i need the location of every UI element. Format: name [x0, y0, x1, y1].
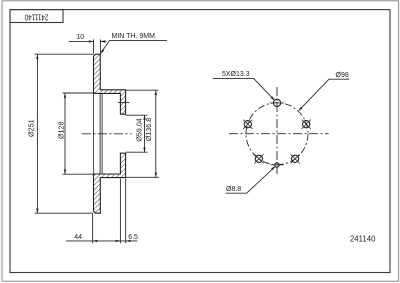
svg-text:5XØ13.3: 5XØ13.3 [222, 71, 250, 78]
leader 5XD13.3 [213, 78, 274, 100]
dimension D251 [35, 54, 94, 213]
svg-text:Ø98: Ø98 [336, 72, 349, 79]
dimension D59.04 [126, 115, 148, 152]
dimension D128 [63, 93, 96, 174]
bolt circle D98 [246, 103, 308, 165]
horizontal centerline [229, 133, 329, 135]
small hole D8.8 [275, 163, 279, 167]
svg-text:Ø251: Ø251 [27, 119, 36, 137]
dimension D136.8 [126, 90, 159, 177]
middle region edges [93, 93, 129, 174]
dimension 44 and 6.5 [66, 178, 138, 243]
ring inner face lines [99, 93, 101, 174]
disc section bottom half [94, 153, 126, 213]
ring OD silhouette line [92, 93, 94, 174]
svg-text:Ø128: Ø128 [56, 122, 65, 140]
hole tick marks [243, 103, 311, 163]
svg-text:2411140: 2411140 [24, 12, 48, 21]
vertical centerline [276, 87, 278, 174]
svg-text:Ø136.8: Ø136.8 [144, 118, 153, 142]
leader D8.8 [226, 167, 276, 194]
svg-text:44: 44 [74, 234, 82, 241]
leader MIN TH. 9MM [101, 40, 167, 53]
section centerline [82, 133, 132, 135]
dimension 10 [69, 39, 107, 53]
svg-text:MIN TH. 9MM: MIN TH. 9MM [112, 33, 156, 40]
disc section top half [94, 54, 126, 213]
leader D98 [299, 79, 349, 110]
svg-text:241140: 241140 [350, 234, 376, 243]
hub register step line [118, 102, 129, 104]
svg-text:Ø8.8: Ø8.8 [226, 186, 241, 193]
title box top-left [10, 10, 63, 23]
svg-text:Ø59.04: Ø59.04 [135, 118, 144, 142]
svg-text:10: 10 [76, 34, 84, 41]
svg-text:6.5: 6.5 [128, 234, 138, 241]
bolt holes 5x D13.3 [244, 99, 310, 162]
